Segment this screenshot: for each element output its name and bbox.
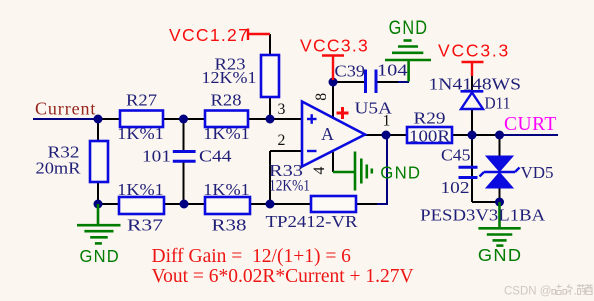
svg-text:PESD3V3L1BA: PESD3V3L1BA bbox=[420, 206, 546, 225]
svg-text:R29: R29 bbox=[414, 109, 446, 128]
svg-text:VCC3.3: VCC3.3 bbox=[300, 36, 369, 56]
svg-text:TP2412-VR: TP2412-VR bbox=[266, 212, 359, 231]
svg-text:102: 102 bbox=[441, 178, 470, 197]
svg-text:R37: R37 bbox=[127, 216, 164, 235]
svg-text:1K%1: 1K%1 bbox=[203, 124, 250, 143]
svg-text:Diff Gain = 12/(1+1) = 6: Diff Gain = 12/(1+1) = 6 bbox=[152, 246, 352, 267]
svg-text:1K%1: 1K%1 bbox=[203, 180, 250, 199]
svg-text:A: A bbox=[321, 124, 334, 144]
svg-text:3: 3 bbox=[278, 101, 286, 118]
svg-text:12K%1: 12K%1 bbox=[269, 178, 310, 195]
svg-text:Current: Current bbox=[35, 99, 96, 119]
svg-text:GND: GND bbox=[80, 246, 121, 266]
svg-text:VCC3.3: VCC3.3 bbox=[438, 41, 510, 61]
svg-text:D11: D11 bbox=[485, 94, 511, 113]
svg-text:R28: R28 bbox=[211, 91, 242, 110]
svg-text:8: 8 bbox=[313, 93, 330, 101]
svg-text:104: 104 bbox=[377, 61, 408, 80]
svg-text:C44: C44 bbox=[199, 147, 232, 166]
svg-text:C45: C45 bbox=[441, 146, 471, 165]
svg-text:GND: GND bbox=[478, 245, 523, 265]
svg-text:CSDN @: CSDN @ bbox=[504, 286, 551, 298]
svg-text:101: 101 bbox=[142, 147, 171, 166]
svg-text:C39: C39 bbox=[335, 62, 366, 81]
svg-text:4: 4 bbox=[311, 166, 328, 174]
svg-text:1: 1 bbox=[383, 113, 391, 130]
svg-text:GND: GND bbox=[389, 18, 429, 39]
svg-text:12K%1: 12K%1 bbox=[202, 68, 257, 87]
svg-text:GND: GND bbox=[380, 163, 421, 183]
svg-text:2: 2 bbox=[278, 132, 286, 149]
svg-text:1K%1: 1K%1 bbox=[117, 124, 164, 143]
svg-text:VCC1.27: VCC1.27 bbox=[169, 25, 249, 45]
svg-text:Vout = 6*0.02R*Current + 1.27V: Vout = 6*0.02R*Current + 1.27V bbox=[152, 266, 414, 287]
svg-text:R27: R27 bbox=[126, 91, 158, 110]
svg-text:VD5: VD5 bbox=[521, 163, 554, 182]
svg-text:1K%1: 1K%1 bbox=[117, 180, 164, 199]
svg-text:100R: 100R bbox=[409, 127, 451, 146]
svg-text:R38: R38 bbox=[212, 216, 247, 235]
svg-text:CURT: CURT bbox=[504, 114, 557, 135]
svg-text:20mR: 20mR bbox=[36, 159, 82, 178]
svg-text:1N4148WS: 1N4148WS bbox=[429, 75, 522, 94]
